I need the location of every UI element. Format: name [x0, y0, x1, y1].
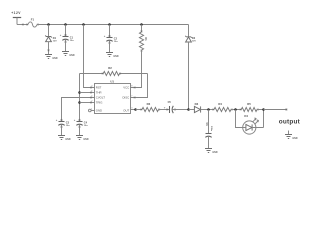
svg-text:GND: GND	[83, 139, 88, 141]
svg-text:GND: GND	[65, 139, 70, 141]
capacitor C4 (timing)	[74, 118, 89, 128]
wire to output terminal	[264, 109, 287, 111]
svg-text:12V: 12V	[53, 40, 57, 42]
zener diode D1	[45, 36, 57, 43]
ground (D1)	[45, 55, 58, 60]
svg-text:12V: 12V	[192, 41, 196, 43]
wire R1 to VCC pin	[131, 50, 142, 88]
svg-text:C5: C5	[168, 101, 172, 104]
wire to C1	[65, 25, 67, 37]
wire TRIG	[80, 102, 95, 104]
capacitor C3 (control)	[56, 118, 71, 128]
zener diode D2	[185, 36, 196, 43]
node THR junction	[78, 91, 81, 94]
wire C3 to ground	[61, 124, 63, 135]
svg-text:C6: C6	[205, 123, 208, 127]
wire R2 run	[80, 73, 148, 75]
wire bus corner to D2	[188, 25, 190, 37]
wire D3 to R4	[201, 109, 214, 111]
wire D2 to output line	[188, 42, 190, 110]
wire down to C6	[208, 110, 210, 134]
node R1 tap	[140, 23, 143, 26]
resistor R2	[102, 66, 121, 76]
node C1 tap	[64, 23, 67, 26]
svg-text:CVOLT: CVOLT	[96, 95, 105, 99]
svg-text:10u: 10u	[70, 40, 74, 42]
wire to D1	[48, 25, 50, 37]
diode D3	[194, 102, 200, 113]
svg-text:GND: GND	[69, 55, 74, 57]
wire R5 to right junction	[257, 109, 264, 111]
node LED left junction	[234, 108, 237, 111]
wire to R1	[141, 25, 143, 33]
ground (output reference)	[285, 131, 298, 140]
svg-text:10u: 10u	[114, 41, 118, 43]
svg-text:DISC: DISC	[123, 95, 130, 99]
U1 GND pin stub	[89, 109, 95, 112]
svg-text:OUT: OUT	[123, 108, 129, 112]
wire THR riser	[79, 74, 81, 122]
U1 pin labels	[96, 85, 130, 112]
node TRIG junction	[78, 101, 81, 104]
ground (C1)	[62, 52, 75, 57]
node C2 tap	[108, 23, 111, 26]
wire LED branch left	[236, 110, 243, 128]
+12V label	[11, 11, 21, 15]
wire to D3	[189, 109, 195, 111]
output terminal marker	[286, 109, 288, 111]
svg-text:RST: RST	[96, 85, 102, 89]
svg-text:VCC: VCC	[123, 85, 129, 89]
svg-text:GND: GND	[212, 152, 217, 154]
output label	[279, 119, 301, 126]
svg-text:F1: F1	[31, 18, 35, 22]
svg-text:100u: 100u	[210, 126, 212, 132]
svg-text:GND: GND	[292, 138, 297, 140]
wire supply to fuse	[17, 24, 28, 26]
+12V bus wire	[37, 24, 189, 26]
svg-text:R2: R2	[108, 66, 112, 70]
wire bus to RST pin	[84, 25, 95, 89]
wire R4 to LED junction	[231, 109, 241, 111]
capacitor C1	[60, 33, 75, 43]
fuse F1	[26, 18, 38, 27]
wire LED branch right	[256, 110, 264, 128]
svg-text:10u: 10u	[84, 125, 88, 127]
wire R3 to C5	[159, 109, 170, 111]
svg-text:+: +	[56, 118, 58, 122]
svg-text:D4: D4	[244, 114, 248, 118]
wire C1 to ground	[65, 39, 67, 51]
svg-text:output: output	[279, 119, 301, 126]
resistor R5	[240, 102, 259, 112]
wire THR	[80, 92, 95, 94]
resistor R1	[139, 31, 147, 52]
svg-text:10n: 10n	[66, 125, 70, 127]
wire R2 to DISC pin	[131, 74, 148, 99]
wire CVOLT	[62, 97, 95, 122]
svg-text:GND: GND	[113, 56, 118, 58]
svg-text:R4: R4	[218, 102, 222, 106]
svg-text:+: +	[74, 118, 76, 122]
svg-text:R1: R1	[144, 38, 147, 42]
node D1 tap	[47, 23, 50, 26]
svg-text:R5: R5	[247, 102, 251, 106]
IC U1 555 timer	[95, 79, 131, 113]
svg-text:D3: D3	[195, 102, 199, 106]
ground (C3)	[58, 136, 71, 141]
resistor R4	[213, 102, 233, 112]
resistor R3	[141, 102, 161, 112]
wire OUT to R3	[136, 109, 143, 111]
wire C6 to ground	[208, 137, 210, 149]
U1 OUT pin stub	[131, 109, 136, 111]
wire C2 to ground	[109, 40, 111, 52]
U1 pin numbers	[91, 86, 133, 111]
node OUT dot	[134, 108, 137, 111]
wire C4 to ground	[79, 124, 81, 135]
wire D1 to ground	[48, 42, 50, 55]
svg-text:GND: GND	[96, 108, 102, 112]
ground (C6)	[205, 149, 218, 154]
svg-text:+: +	[60, 33, 62, 37]
node LED right junction	[262, 108, 265, 111]
svg-text:TRIG: TRIG	[96, 100, 103, 104]
svg-text:R3: R3	[147, 102, 151, 106]
+12V supply bar	[13, 18, 21, 25]
ground (C4)	[76, 136, 89, 141]
terminal tick	[22, 24, 24, 26]
svg-text:U1: U1	[110, 79, 114, 83]
svg-text:THR: THR	[96, 90, 102, 94]
svg-text:GND: GND	[52, 58, 57, 60]
node D2 junction	[187, 108, 190, 111]
node C6 tap	[207, 108, 210, 111]
node RST riser tap	[82, 23, 85, 26]
LED D4	[243, 114, 259, 134]
svg-text:+12V: +12V	[11, 11, 21, 15]
wire to C2	[109, 25, 111, 38]
capacitor C2	[104, 34, 119, 44]
svg-text:+: +	[104, 34, 106, 38]
capacitor C5 (series)	[164, 101, 176, 113]
capacitor C6	[205, 123, 212, 138]
svg-text:+: +	[164, 105, 166, 109]
ground (C2)	[106, 53, 119, 58]
wire C5 to D2 node	[173, 109, 189, 111]
